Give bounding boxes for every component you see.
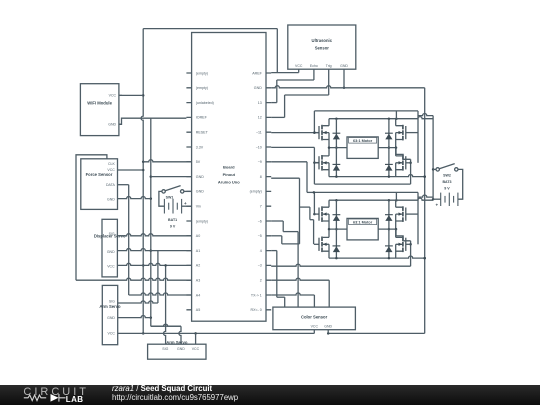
svg-text:GND: GND (196, 190, 204, 194)
wire Force DATA to A4 (118, 185, 192, 295)
battery BAT1 9V (164, 199, 187, 228)
svg-text:VCC: VCC (108, 332, 116, 336)
wire bottom rail [bridge 2] (329, 256, 426, 259)
svg-text:IOREF: IOREF (196, 116, 208, 120)
wire 8 / ~5 chain (271, 178, 313, 244)
svg-text:+: + (184, 201, 187, 206)
svg-text:VCC: VCC (311, 324, 319, 328)
svg-text:Arm Servo: Arm Servo (99, 304, 121, 309)
svg-text:~9: ~9 (258, 160, 262, 164)
svg-text:VCC: VCC (192, 347, 200, 351)
svg-text:AREF: AREF (252, 71, 262, 75)
svg-text:VCC: VCC (295, 64, 303, 68)
svg-text:Vin: Vin (196, 205, 201, 209)
footer bar (0, 385, 540, 405)
wire GND bus right vertical (423, 88, 426, 334)
svg-text:~11: ~11 (256, 131, 262, 135)
svg-text:Pinout: Pinout (223, 172, 236, 177)
wire Arm SIG row (118, 301, 158, 303)
wire bottom GND rail (327, 330, 425, 335)
wire motor chain right [bridge 1] (396, 148, 412, 185)
wire top rail [bridge 2] (329, 192, 398, 201)
svg-text:3.3V: 3.3V (196, 145, 204, 149)
diode D5 [bridge 2] (333, 200, 341, 229)
wire right gates [bridge 2] (406, 214, 418, 244)
svg-text:5V: 5V (196, 160, 201, 164)
svg-text:GND: GND (107, 316, 115, 320)
IC U1 Board Pinout Aruino Uno (186, 33, 271, 322)
wire TX1 to color sensor (271, 293, 314, 307)
svg-text:Aruino Uno: Aruino Uno (218, 180, 240, 185)
wire ~11 to bridge1 gate (271, 131, 318, 134)
wire rail to battery bus [bridge 1] (396, 114, 433, 119)
svg-text:~5: ~5 (258, 234, 262, 238)
svg-text:(empty): (empty) (196, 219, 208, 223)
svg-text:WIFI Module: WIFI Module (87, 100, 112, 105)
wire outer top [bridge 2] (313, 192, 418, 244)
wire ~3 to bridge2 motor (271, 264, 410, 266)
transistor Q6 (bottom-left NMOS) [bridge 2] (319, 229, 329, 258)
footer text (112, 385, 238, 402)
wire rail to battery bus [bridge 2] (396, 195, 433, 200)
switch SW1 (162, 186, 184, 200)
svg-text:RX<- 0: RX<- 0 (251, 308, 262, 312)
svg-text:12: 12 (258, 116, 262, 120)
svg-text:Ultrasonic: Ultrasonic (312, 38, 333, 43)
svg-text:Board: Board (223, 165, 235, 170)
wire GND row right (271, 86, 425, 88)
svg-text:BAT1: BAT1 (168, 218, 177, 222)
svg-text:Trig: Trig (326, 64, 332, 68)
svg-text:~6: ~6 (258, 219, 262, 223)
svg-text:8: 8 (260, 175, 262, 179)
svg-text:9 V: 9 V (170, 224, 176, 228)
wire bottom rail [bridge 1] (329, 175, 426, 178)
diode D8 [bridge 2] (385, 228, 393, 258)
transistor Q2 (bottom-left NMOS) [bridge 1] (319, 148, 329, 177)
svg-text:(empty): (empty) (250, 190, 262, 194)
wire WIFI VCC (119, 94, 143, 96)
svg-text:VCC: VCC (109, 94, 117, 98)
wire Force GND row (118, 197, 151, 199)
wire 5V bus vertical (141, 29, 144, 335)
wire ~9 to bridge2 top (271, 162, 315, 194)
diode D6 [bridge 2] (333, 228, 341, 258)
svg-text:A3: A3 (196, 279, 200, 283)
motor M1 (63:1 Motor) [bridge 1] (347, 137, 378, 159)
transistor Q5 (top-left NMOS) [bridge 2] (319, 200, 329, 229)
diode D3 [bridge 1] (385, 119, 393, 148)
svg-text:GND: GND (324, 324, 332, 328)
svg-text:63:1 Motor: 63:1 Motor (353, 220, 373, 224)
svg-text:9 V: 9 V (444, 187, 450, 191)
wire WIFI GND to IOREF (119, 118, 186, 124)
wire motor left rail [bridge 2] (328, 228, 347, 231)
wire GND bus vertical (150, 118, 153, 326)
wire motor right rail [bridge 1] (378, 146, 397, 149)
CircuitLab logo (14, 385, 124, 405)
svg-text:DATA: DATA (106, 183, 115, 187)
wire Displacer VCC / A2 row (117, 263, 191, 344)
svg-text:Echo: Echo (310, 64, 318, 68)
svg-text:Color Sensor: Color Sensor (301, 315, 328, 320)
svg-text:(empty): (empty) (196, 71, 208, 75)
svg-text:GND: GND (107, 197, 115, 201)
svg-text:CLK: CLK (108, 162, 115, 166)
svg-text:(empty): (empty) (196, 86, 208, 90)
wire GND pin row (151, 176, 192, 178)
wire 4 to color sensor (271, 251, 285, 308)
transistor Q4 (bottom-right NMOS) [bridge 1] (396, 148, 406, 177)
diode D1 [bridge 1] (333, 119, 341, 148)
wire VCC bottom row (118, 330, 315, 345)
wire outer top [bridge 1] (313, 111, 418, 163)
transistor Q7 (top-right NMOS) [bridge 2] (396, 200, 406, 229)
svg-text:A1: A1 (196, 249, 200, 253)
motor M2 (63:1 Motor) [bridge 2] (347, 218, 378, 240)
svg-text:GND: GND (107, 250, 115, 254)
wire SW1 to GND pin (184, 190, 192, 192)
svg-text:A2: A2 (196, 264, 200, 268)
WIFI Module (80, 84, 122, 136)
wire ultrasonic GND drop (343, 69, 346, 89)
svg-text:A0: A0 (196, 234, 200, 238)
switch SW2 (436, 164, 458, 178)
wire motor chain right [bridge 2] (396, 229, 412, 266)
wire left gate leads [bridge 1] (314, 133, 319, 163)
svg-text:4: 4 (260, 249, 262, 253)
wire Displacer SIG to A0 (117, 234, 191, 236)
Force Sensor (81, 159, 118, 210)
svg-text:Arm Servo: Arm Servo (166, 340, 188, 345)
svg-text:A5: A5 (196, 308, 200, 312)
wire SW2 right to BAT3 (458, 169, 463, 199)
wire left gate leads [bridge 2] (314, 214, 319, 244)
svg-text:GND: GND (196, 175, 204, 179)
svg-text:~10: ~10 (256, 145, 262, 149)
svg-text:GND: GND (177, 347, 185, 351)
Displacer Servo (94, 219, 126, 277)
wire top rail [bridge 1] (329, 111, 398, 120)
wire motor right rail [bridge 2] (378, 228, 397, 231)
svg-text:13: 13 (258, 101, 262, 105)
svg-text:GND: GND (254, 86, 262, 90)
wire ~6 to color sensor (271, 221, 298, 307)
svg-text:TX-> 1: TX-> 1 (251, 293, 262, 297)
svg-text:Sensor: Sensor (315, 46, 330, 51)
diode D4 [bridge 1] (385, 146, 393, 176)
wire AREF / ultrasonic VCC (271, 29, 299, 73)
battery BAT3 9V (435, 180, 457, 207)
Ultrasonic Sensor (288, 25, 356, 69)
wire motor left rail [bridge 1] (328, 146, 347, 149)
wire SW1 to BAT1 (159, 191, 165, 206)
svg-text:2: 2 (260, 279, 262, 283)
wire Force top pin loop to A3 (76, 155, 192, 280)
wire right gates [bridge 1] (406, 133, 418, 163)
svg-text:(unlabeled): (unlabeled) (196, 101, 214, 105)
svg-text:RESET: RESET (196, 131, 209, 135)
wire 5V top run (143, 28, 277, 30)
diode D7 [bridge 2] (385, 200, 393, 229)
svg-text:A4: A4 (196, 293, 200, 297)
wire Force VCC (118, 169, 144, 171)
wire BAT3 left (433, 198, 441, 200)
wire BAT1 to Vin (182, 205, 192, 207)
wire 5V pin row (143, 160, 191, 162)
wire ~10 to bridge1 motor (271, 147, 410, 184)
wire SW2 left (433, 168, 436, 170)
wire battery bus vertical (432, 116, 435, 201)
svg-text:GND: GND (340, 64, 348, 68)
svg-text:VCC: VCC (107, 265, 115, 269)
Arm Servo (bottom) (148, 340, 206, 359)
svg-text:LAB: LAB (66, 395, 84, 404)
svg-text:63:1 Motor: 63:1 Motor (353, 139, 373, 143)
wire GND to bottom servo (151, 324, 181, 344)
wire 13 to Echo (271, 69, 314, 102)
svg-text:SIG: SIG (162, 347, 168, 351)
svg-text:~3: ~3 (258, 264, 262, 268)
svg-text:SW2: SW2 (443, 174, 451, 178)
svg-text:7: 7 (260, 205, 262, 209)
Color Sensor (273, 307, 356, 330)
svg-text:+: + (435, 202, 438, 207)
svg-text:Force Sensor: Force Sensor (86, 172, 113, 177)
Arm Servo (left) (99, 285, 121, 344)
wire 12 to Trig (271, 69, 329, 117)
svg-text:GND: GND (108, 123, 116, 127)
diode D2 [bridge 1] (333, 146, 341, 176)
wire 2 to color sensor (271, 278, 329, 307)
transistor Q3 (top-right NMOS) [bridge 1] (396, 119, 406, 148)
transistor Q1 (top-left NMOS) [bridge 1] (319, 119, 329, 148)
svg-text:SW1: SW1 (166, 196, 174, 200)
wire Displacer GND / A1 row (117, 248, 191, 303)
transistor Q8 (bottom-right NMOS) [bridge 2] (396, 229, 406, 258)
wire Arm GND row (118, 316, 151, 318)
svg-text:BAT3: BAT3 (442, 180, 451, 184)
svg-text:SIG: SIG (109, 299, 115, 303)
